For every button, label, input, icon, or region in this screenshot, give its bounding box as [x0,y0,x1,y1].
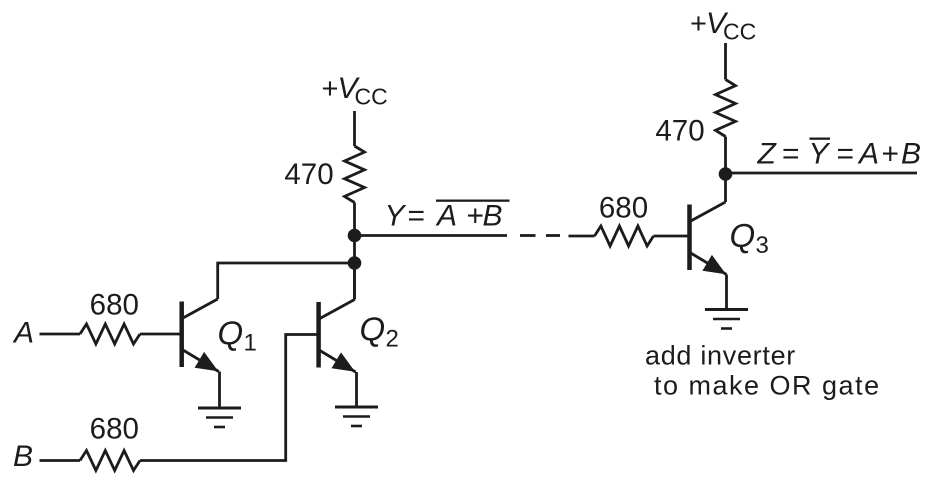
svg-text:B: B [13,440,33,473]
svg-text:+: + [690,8,707,40]
svg-text:=: = [837,138,855,171]
svg-text:Q: Q [730,217,756,254]
svg-text:2: 2 [386,326,399,353]
svg-text:B: B [901,138,921,171]
svg-text:A: A [12,317,34,350]
svg-text:680: 680 [90,413,139,446]
svg-text:=: = [782,138,800,171]
svg-text:Q: Q [360,311,386,348]
svg-text:Z: Z [757,138,778,171]
svg-text:Y: Y [385,200,407,233]
svg-text:+: + [467,200,485,233]
svg-text:+: + [322,73,339,105]
svg-text:=: = [408,200,426,233]
svg-text:Y: Y [809,138,831,171]
svg-text:Q: Q [218,315,244,352]
svg-text:470: 470 [284,158,333,191]
svg-text:add inverter: add inverter [645,341,796,371]
svg-text:1: 1 [244,330,257,357]
svg-text:CC: CC [723,19,756,45]
svg-text:3: 3 [756,232,769,259]
svg-text:to make OR gate: to make OR gate [654,371,881,401]
svg-text:680: 680 [90,289,139,322]
svg-text:+: + [882,138,900,171]
svg-text:470: 470 [655,115,704,148]
svg-text:B: B [483,200,503,233]
svg-text:680: 680 [599,192,648,225]
svg-text:CC: CC [355,84,388,110]
svg-text:A: A [435,200,457,233]
svg-text:A: A [857,138,879,171]
